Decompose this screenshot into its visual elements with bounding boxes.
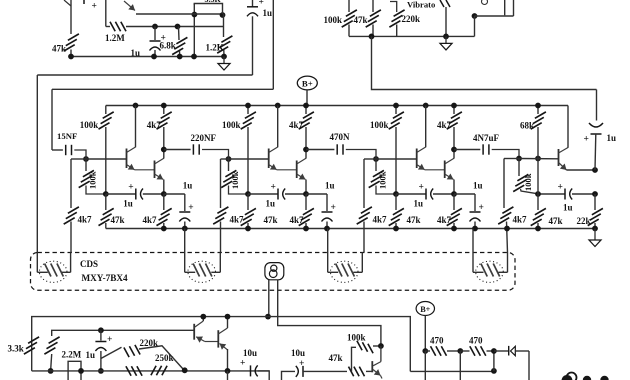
cut-off capacitor fragment [83,0,85,4]
capacitor 470N [306,149,334,151]
node pot wiper circle [482,0,488,5]
svg-text:4k7: 4k7 [147,120,162,130]
resistor 100k stage2 bias (rotated) [228,159,230,171]
svg-text:100k: 100k [222,120,241,130]
resistor element pot B (on rail) [151,366,156,376]
CDS opto box (dashed) [31,253,516,291]
node base out B [535,156,541,162]
transistor Q2b [296,161,298,179]
node T1 collector [200,314,206,320]
wire base out [519,158,559,160]
node out cap left [535,191,541,197]
resistor 4k7 out to LDR [502,207,513,213]
svg-text:47k: 47k [111,215,125,225]
capacitor 1u stage3 (series) [396,193,426,195]
LDR cell 1 [39,261,67,282]
supply B+ (middle) [297,76,317,90]
svg-text:10u: 10u [243,348,257,358]
node diode row 2 [457,348,463,354]
svg-text:15NF: 15NF [57,131,77,141]
svg-text:1u: 1u [607,133,617,143]
svg-text:1u: 1u [86,350,96,360]
wire cell lead stage3 [364,158,376,160]
svg-text:470: 470 [430,336,444,346]
resistor 100k (vibrato) [348,0,350,12]
node lamp driver collector [378,343,384,349]
svg-text:B+: B+ [420,305,430,314]
resistor 470 #2 [460,350,469,352]
resistor 3.3k [28,337,39,343]
node collector out stage1 [161,147,167,153]
node rail2 dot 47k stage1 [0,0,1,1]
wire emitter Q1b down [163,180,165,195]
svg-text:1u: 1u [325,181,335,191]
resistor 47k stage1 [105,194,107,210]
svg-text:+: + [419,183,424,193]
node rail2 dot 4k7 stage1 [161,226,167,232]
node A stage1 [103,191,109,197]
wire input line W1 vertical top [272,0,274,89]
resistor 4k7 stage2 to LDR [217,207,228,213]
svg-text:1.2K: 1.2K [206,43,224,53]
node rail3 connector [78,368,84,374]
svg-text:47k: 47k [329,353,343,363]
wire W1 to 15NF [51,89,53,150]
node junction y14/x194 [192,12,198,18]
node rail dot collector stage2 [275,103,281,109]
svg-text:4k7: 4k7 [78,215,93,225]
svg-text:+: + [271,183,276,193]
svg-text:+: + [331,203,336,213]
node rail dot collector stage1 [133,103,139,109]
node A stage2 [245,191,251,197]
svg-text:+: + [259,0,264,8]
wire lamp right lead [278,280,381,346]
svg-text:100k: 100k [230,171,240,189]
wire wrap W2 vertical [36,75,38,253]
wire vertical x=194 [193,4,195,57]
svg-text:+: + [558,183,563,193]
node LFO rail D [191,54,197,60]
wire bottom rail of LFO section [71,56,224,58]
svg-text:100k: 100k [324,15,343,25]
node rail3 T2 [225,368,231,374]
wire base stage2 [229,158,269,160]
node B stage3 [451,191,457,197]
capacitor 1u stage2 (series) [248,193,278,195]
wire LDR3 left lead [327,229,329,253]
wire LDR4 left lead [472,229,474,253]
wire 10u2 corner [282,371,296,380]
svg-text:+: + [584,135,589,145]
svg-text:4k7: 4k7 [289,120,304,130]
svg-text:6.8k: 6.8k [160,41,176,51]
node rail2 end [592,226,598,232]
wire emitter Q3b down [453,180,455,195]
capacitor 1u stage1 electrolytic [164,193,185,195]
node lamp on wire1 [265,314,271,320]
ground (vibrato) [445,36,447,43]
node B stage2 [303,191,309,197]
resistor 6.8k [178,27,181,41]
svg-text:47k: 47k [407,215,421,225]
svg-text:22k: 22k [577,216,591,226]
capacitor 1u stage1 (series) [106,193,136,195]
resistor 100k stage1 (rail to node) [105,106,107,115]
resistor 4k7 stage2 emitter [305,194,307,210]
node LFO rail B [151,54,157,60]
wire pot apex [139,346,184,370]
resistor 100k out (rotated) [518,159,520,177]
wire jack horizontal [475,15,514,17]
node rail dot collector stage3 [423,103,429,109]
svg-text:1u: 1u [563,203,573,213]
svg-text:100k: 100k [88,171,98,189]
svg-text:1u: 1u [266,199,276,209]
node junction 6.8k top [175,24,181,30]
node LFO rail E [221,54,227,60]
resistor 220k (vibrato) [390,2,397,13]
transistor Q3a [416,149,418,169]
wire cell lead stage2 [221,158,229,160]
wire below B+ node [424,351,426,380]
svg-text:4k7: 4k7 [290,215,305,225]
svg-text:10u: 10u [291,348,305,358]
node rail3 2.2M [48,368,54,374]
logo fragment dot3 [600,376,608,380]
wire emitter out [567,169,596,171]
capacitor 4N7uF [454,149,480,151]
node collector out stage3 [451,147,457,153]
capacitor 1u stage3 electrolytic [454,193,475,195]
resistor 47k out [537,159,539,195]
node out rail junction [491,368,497,374]
wire W1 horizontal [52,88,273,90]
svg-text:4k7: 4k7 [513,215,528,225]
resistor 2.2M [49,337,60,343]
resistor 100k stage2 (rail to node) [247,106,249,115]
node rail dot 68k [535,103,541,109]
svg-text:B+: B+ [302,78,313,88]
wire vertical to 1.2M [105,0,107,27]
wire cell lead stage1 [71,158,86,160]
resistor 4k7 stage1 to LDR [68,207,79,213]
svg-text:+: + [240,359,245,369]
logo fragment ring [567,373,577,380]
svg-text:MXY-7BX4: MXY-7BX4 [82,273,129,283]
svg-text:47k: 47k [52,44,66,54]
wire input stem top-left [70,0,72,34]
svg-text:1.2M: 1.2M [105,33,125,43]
svg-text:470: 470 [469,336,483,346]
svg-text:220k: 220k [402,14,421,24]
node rail3 1u [98,368,104,374]
svg-text:1u: 1u [473,181,483,191]
node collector out stage2 [303,147,309,153]
svg-text:+: + [107,335,112,345]
resistor 100k lamp driver [352,347,357,371]
wire T2 emitter down [227,349,229,371]
supply B+ (bottom) [416,302,434,316]
node junction y14 right [220,12,226,18]
resistor 47k LFO out [349,367,354,377]
LDR cell 4 [476,261,504,282]
node LFO rail C [177,54,183,60]
resistor 4k7 stage3 emitter [453,194,455,210]
svg-text:47k: 47k [549,216,563,226]
wire vibrato bottom [349,35,475,37]
wire out cell lead [504,158,519,160]
svg-text:250k: 250k [155,353,174,363]
svg-text:+: + [188,203,193,213]
resistor 47k stage2 [247,194,249,210]
ground (LFO section) [223,57,225,64]
transistor Q2a [268,149,270,169]
node junction 1.2M/cap [152,24,158,30]
wire 1.2M to 1.2K [155,26,224,28]
wire diode out down [528,351,530,380]
transistor Q1a [126,149,128,169]
transistor T1 (LFO) [193,324,195,340]
resistor 220k (LFO pot) [101,347,122,358]
resistor 4k7 stage3 to LDR [361,207,372,213]
svg-text:47k: 47k [264,215,278,225]
wire1 end to out rail [410,370,494,372]
wire1 (LFO top rail) [32,317,411,372]
node diode row 3 [491,348,497,354]
svg-text:+: + [479,203,484,213]
capacitor 1u (top-left electrolytic) [154,27,156,41]
wire emitter Q1a to base Q1b [135,169,155,171]
resistor 100k stage1 bias (rotated) [85,159,87,171]
svg-text:+: + [128,183,133,193]
transistor T2 (LFO) [217,330,219,347]
resistor 4k7 stage3 (collector load) [453,106,455,115]
capacitor 1u (coupling, top) [252,0,254,7]
svg-text:+: + [299,359,304,369]
wire base stage1 [86,158,127,160]
svg-text:4k7: 4k7 [143,215,158,225]
resistor 100k stage3 (rail to node) [395,106,397,115]
svg-text:3.3k: 3.3k [8,344,24,354]
resistor 4k7 stage1 (collector load) [163,106,165,115]
svg-text:1u: 1u [414,199,424,209]
capacitor 1u out (series) [538,193,565,195]
wire2 (LFO mid rail) [52,330,195,336]
wire 10u1 corner down [258,371,270,380]
node wire2 1u [98,327,104,333]
resistor 470 #1 [425,350,430,352]
resistor 47k (top-left) [68,34,79,40]
node rail2 dot cap stage2 [324,226,330,232]
svg-text:1u: 1u [263,8,273,18]
lamp (8 symbol) [265,263,284,280]
jack/switch box right [513,0,515,16]
wire V+ rail (middle band) [106,105,568,107]
wire wrap W2 horizontal [37,74,252,76]
node rail2 dot cap stage1 [182,226,188,232]
LDR cell 3 [330,261,358,282]
svg-text:220NF: 220NF [191,133,217,143]
capacitor 1u stage2 electrolytic [306,193,327,195]
node rail2 dot 47k stage3 [393,226,399,232]
resistor 4k7 stage1 emitter [163,194,165,210]
node T2 collector [225,314,231,320]
node rail2 dot 47k out [535,226,541,232]
svg-text:100k: 100k [370,120,389,130]
svg-text:+: + [92,2,97,12]
node rail2 dot 47k stage2 [245,226,251,232]
node rail2 dot 4k7 stage3 [451,226,457,232]
wire vibrato pot down [445,7,447,36]
wire vibrato feed [372,36,597,89]
node emitter out [592,167,598,173]
svg-text:1u: 1u [123,199,133,209]
wire ground rail (middle band) [106,228,595,230]
resistor 4k7 stage2 (collector load) [305,106,307,115]
capacitor 220NF [164,149,191,151]
node vibrato bottom left [369,34,375,40]
wire emitter Q3a to base Q3b [425,169,445,171]
connector box fragment [68,361,81,380]
wire emitter Q2a to base Q2b [277,169,297,171]
svg-text:4k7: 4k7 [373,215,388,225]
node rail dot 4k7 stage3 [451,103,457,109]
svg-text:100k: 100k [523,173,533,191]
svg-text:100k: 100k [80,120,99,130]
wire top bracket [194,4,222,15]
resistor element pot A (on rail) [126,366,131,376]
capacitor 1u LFO [100,330,102,340]
node base stage2 [226,156,232,162]
resistor 47k (vibrato) [372,0,374,12]
resistor 1.2K [223,14,225,37]
node A stage3 [393,191,399,197]
svg-text:4k7: 4k7 [230,215,245,225]
LFO bottom rail [32,370,270,372]
transistor Q1b [154,161,156,179]
node diode row 1 [422,348,428,354]
node LFO rail A [68,54,74,60]
wire LDR2 left lead [184,229,186,253]
node base out A [516,156,522,162]
resistor 100k stage3 bias (rotated) [375,159,377,171]
wire below rail3 T2 [227,371,229,380]
node rail dot 100k stage3 [393,103,399,109]
node out cap right [592,191,598,197]
ground (output) [594,229,596,241]
svg-text:1u: 1u [183,181,193,191]
node rail2 dot 4k7 stage2 [303,226,309,232]
node rail2 dot cap stage3 [472,226,478,232]
svg-text:100k: 100k [347,333,366,343]
capacitor 10u #1 [250,365,252,376]
cut-off transistor emitter arrow [124,1,135,11]
jack/switch box left [504,0,506,15]
svg-text:4k7: 4k7 [437,215,452,225]
node rail dot 100k stage2 [245,103,251,109]
diode D1 [494,350,508,352]
wire emitter Q2b down [305,180,307,195]
capacitor 1u feedback [596,90,598,121]
wire horizontal y=14 [136,13,224,15]
wire 10u2 to 47k [303,370,347,372]
resistor 1.2M [106,26,110,28]
node rail dot 4k7 stage2 [303,103,309,109]
svg-text:Vibrato: Vibrato [407,0,435,10]
svg-text:CDS: CDS [80,259,98,269]
node junction jack [472,13,478,19]
wire jack vertical [474,16,476,36]
logo fragment dot2 [583,376,591,380]
node base stage1 [83,156,89,162]
transistor Q7 (output follower) [558,149,560,166]
node rail2 dot 4k7 out [504,226,510,232]
resistor 47k stage3 [395,194,397,210]
svg-text:68k: 68k [520,121,534,131]
node vibrato bottom mid [443,34,449,40]
svg-text:47k: 47k [354,15,368,25]
svg-text:4N7uF: 4N7uF [473,133,500,143]
node B stage1 [161,191,167,197]
capacitor 10u #2 [302,366,304,377]
wire T1 emitter to T2 base [205,341,219,343]
node rail dot 100k stage1 [0,0,1,1]
capacitor 15NF (input) [52,149,63,151]
resistor 68k [537,106,539,115]
LDR cell 2 [188,261,216,282]
wire below diode row 2 [459,351,461,380]
node rail3 pot [182,367,188,373]
svg-text:2.2M: 2.2M [62,350,82,360]
resistor 22k [594,194,596,210]
node base stage3 [373,156,379,162]
svg-text:100k: 100k [378,171,388,189]
transistor T3 (lamp driver) [371,361,373,372]
svg-text:470N: 470N [330,132,351,142]
transistor Q3b [444,161,446,179]
wire base stage3 [376,158,417,160]
node rail dot 4k7 stage1 [161,103,167,109]
wire lamp left lead [268,280,270,317]
wire up to diode row [493,351,495,371]
resistor fragment (vibrato depth pot) [440,0,444,7]
svg-text:4k7: 4k7 [437,120,452,130]
